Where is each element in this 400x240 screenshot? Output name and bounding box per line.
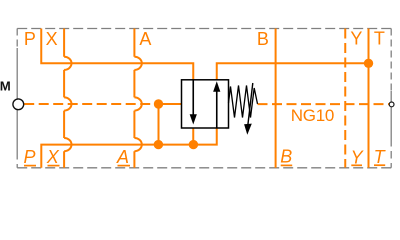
junction node on T line [364, 59, 373, 68]
svg-text:P: P [24, 29, 36, 49]
valve V1 body [182, 80, 229, 128]
svg-text:B: B [280, 147, 292, 167]
wire: gauge pilot line dashed from M [24, 103, 158, 105]
svg-text:B: B [257, 29, 269, 49]
hop of A over gauge line [134, 97, 141, 110]
wire: valve bottom left leg [192, 128, 194, 145]
valve V1 up-flow arrow [216, 92, 218, 128]
spring (adjustable) [229, 86, 258, 118]
svg-text:X: X [46, 29, 58, 49]
port T line [368, 29, 370, 168]
svg-text:X: X [46, 147, 60, 167]
port B line [275, 29, 277, 168]
junction node lower rail left [154, 140, 163, 149]
port X line (with crossover hops) [63, 29, 65, 168]
svg-text:A: A [116, 147, 129, 167]
gauge port circle [13, 99, 24, 110]
wire: spring drain dashed to right port [258, 103, 390, 105]
plate outline bottom edge [17, 167, 391, 169]
plate outline left edge [16, 29, 18, 49]
svg-text:A: A [139, 29, 151, 49]
hop of X over upper rail [64, 57, 71, 70]
hop of A over lower rail [134, 138, 141, 151]
svg-text:M: M [0, 78, 11, 93]
wire: node drop to lower rail [158, 104, 160, 145]
hop of A over upper rail [134, 57, 141, 70]
spring adjustment arrow [248, 83, 253, 126]
port Y line (pilot drain, dashed) [344, 29, 346, 168]
port A line (with crossover hops) [133, 29, 135, 168]
plate outline top edge [17, 28, 391, 30]
valve V1 down-flow arrow [192, 80, 194, 116]
junction node lower rail right [189, 140, 198, 149]
svg-text:T: T [374, 29, 385, 49]
svg-text:Y: Y [351, 147, 365, 167]
svg-text:Y: Y [350, 29, 362, 49]
wire: port P bottom and lower rail to valve [41, 128, 216, 168]
wire: pilot into valve left [158, 103, 182, 105]
wire: upper rail valve to T [217, 63, 369, 80]
hop of X over gauge line [64, 97, 71, 110]
right drain port circle [389, 102, 394, 107]
svg-text:P: P [24, 147, 36, 167]
svg-text:NG10: NG10 [291, 106, 334, 125]
junction node at gauge line [154, 99, 163, 108]
svg-text:T: T [374, 147, 387, 167]
wire: port P top drop and upper rail to valve [41, 29, 193, 81]
plate outline right edge [390, 29, 392, 92]
hop of X over lower rail [64, 138, 71, 151]
